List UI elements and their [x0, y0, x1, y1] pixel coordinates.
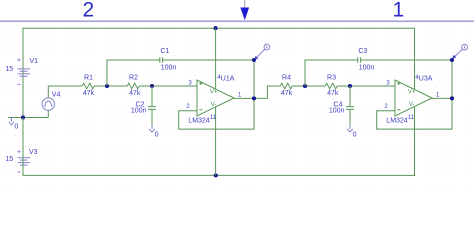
svg-text:C3: C3 [358, 48, 367, 55]
svg-text:V-: V- [211, 102, 217, 108]
node A junction [105, 84, 109, 88]
svg-text:100n: 100n [329, 107, 345, 114]
capacitor C4 [346, 107, 354, 110]
value 15 V3 [5, 156, 13, 163]
wire R4-R3 [292, 85, 325, 87]
wire C4 top [349, 86, 351, 106]
value R2 47k [129, 90, 141, 97]
wire C3 to output node [361, 59, 452, 61]
wire C4 bottom [349, 109, 351, 125]
wire U3A output [432, 97, 452, 99]
label U3A [419, 76, 433, 83]
svg-text:2: 2 [82, 0, 94, 21]
pin 1 U1A [238, 92, 242, 98]
node C1 output junction [252, 58, 256, 62]
wire U1A output [234, 86, 280, 98]
svg-text:V1: V1 [30, 58, 39, 65]
battery V1 [18, 58, 31, 84]
capacitor C3 [358, 57, 361, 62]
svg-text:0: 0 [14, 123, 18, 130]
value C3 100n [359, 64, 375, 71]
node bottom rail junction [214, 173, 218, 177]
label V1 [30, 58, 39, 65]
wire R1-R2 [94, 85, 127, 87]
probe 2 [452, 44, 467, 59]
label U1A [221, 76, 235, 83]
svg-text:U1A: U1A [221, 76, 235, 83]
wire V1 bottom [22, 77, 24, 118]
pin 11 U3A [408, 115, 415, 121]
svg-text:R3: R3 [327, 74, 336, 81]
wire ground row [8, 117, 48, 119]
node C4 junction [348, 84, 352, 88]
resistor R3 [325, 83, 337, 89]
node B junction [303, 84, 307, 88]
label LM324 U1A [188, 118, 210, 125]
page marker arrow [240, 0, 249, 20]
wire pin2 feedback U3A [377, 60, 452, 129]
label C4 [334, 102, 343, 109]
svg-text:15: 15 [5, 66, 13, 73]
label 0 C2 [155, 132, 159, 139]
label V+ U1A [210, 90, 218, 96]
svg-text:100n: 100n [161, 64, 177, 71]
source V4 [42, 98, 54, 110]
resistor R1 [82, 83, 94, 89]
node C2 junction [150, 84, 154, 88]
svg-text:LM324: LM324 [188, 118, 210, 125]
wire bottom rail [23, 107, 415, 175]
pin 4 U3A [415, 75, 419, 81]
ground under C2 [149, 126, 155, 132]
node U1A output junction [252, 96, 256, 100]
op-amp U3A [395, 80, 432, 116]
pin 11 U1A [210, 115, 217, 121]
svg-text:0: 0 [155, 132, 159, 139]
node top rail junction [214, 26, 218, 30]
capacitor C1 [160, 57, 163, 62]
label R1 [84, 74, 93, 81]
value R4 47k [281, 90, 293, 97]
svg-text:V4: V4 [52, 92, 61, 99]
probe 1 [254, 44, 269, 60]
svg-text:11: 11 [408, 115, 415, 121]
wire C1 to output node [163, 59, 254, 61]
wire node B up [305, 60, 358, 86]
label V3 [29, 149, 38, 156]
svg-text:100n: 100n [359, 64, 375, 71]
svg-text:11: 11 [210, 115, 217, 121]
label V- U1A [211, 102, 217, 108]
svg-text:V+: V+ [408, 90, 416, 96]
resistor R2 [127, 83, 139, 89]
pin 2 U3A [384, 104, 388, 110]
label V4 [52, 92, 61, 99]
svg-text:C1: C1 [160, 48, 169, 55]
wire V4 bottom [47, 110, 49, 117]
page number 2 [82, 0, 94, 21]
value C1 100n [161, 64, 177, 71]
svg-text:V3: V3 [29, 149, 38, 156]
value R1 47k [83, 90, 95, 97]
svg-text:U3A: U3A [419, 76, 433, 83]
label V+ U3A [408, 90, 416, 96]
label V- U3A [409, 102, 415, 108]
svg-text:47k: 47k [327, 90, 339, 97]
label C3 [358, 48, 367, 55]
svg-text:1: 1 [393, 0, 405, 21]
value C4 100n [329, 107, 345, 114]
node C3 output junction [450, 58, 454, 62]
ground 0 left [9, 118, 15, 125]
svg-text:0: 0 [353, 132, 357, 139]
wire node A up [107, 60, 160, 86]
value R3 47k [327, 90, 339, 97]
svg-text:V-: V- [409, 102, 415, 108]
svg-text:LM324: LM324 [386, 118, 408, 125]
node U3A output junction [450, 96, 454, 100]
node ground row junction [21, 115, 25, 119]
svg-text:V+: V+ [210, 90, 218, 96]
capacitor C2 [148, 107, 156, 110]
label C1 [160, 48, 169, 55]
pin 1 U3A [436, 92, 440, 98]
pin 4 U1A [217, 75, 221, 81]
battery V3 [18, 150, 31, 172]
label LM324 U3A [386, 118, 408, 125]
svg-text:100n: 100n [131, 107, 147, 114]
page number 1 [393, 0, 405, 21]
label 0 C4 [353, 132, 357, 139]
wire pin2 feedback [179, 60, 254, 129]
wire top rail [23, 28, 415, 117]
svg-text:47k: 47k [129, 90, 141, 97]
value 15 V1 [5, 66, 13, 73]
wire R3 to pin3 [337, 85, 395, 87]
wire C2 bottom [151, 109, 153, 125]
label R4 [282, 74, 291, 81]
svg-text:47k: 47k [83, 90, 95, 97]
svg-text:47k: 47k [281, 90, 293, 97]
svg-text:R2: R2 [129, 74, 138, 81]
svg-text:R4: R4 [282, 74, 291, 81]
label R2 [129, 74, 138, 81]
wire R2 to pin3 [139, 85, 197, 87]
pin 3 U3A [386, 81, 390, 87]
svg-text:15: 15 [5, 156, 13, 163]
wire V4 top [48, 86, 82, 98]
label 0 left [14, 123, 18, 130]
label R3 [327, 74, 336, 81]
svg-text:R1: R1 [84, 74, 93, 81]
wire C2 top [151, 86, 153, 106]
value C2 100n [131, 107, 147, 114]
pin 2 U1A [186, 104, 190, 110]
resistor R4 [280, 83, 292, 89]
page border line [0, 20, 474, 22]
op-amp U1A [197, 28, 234, 175]
wire V3 top [22, 118, 24, 176]
label C2 [136, 102, 145, 109]
ground under C4 [347, 126, 353, 132]
pin 3 U1A [188, 81, 192, 87]
